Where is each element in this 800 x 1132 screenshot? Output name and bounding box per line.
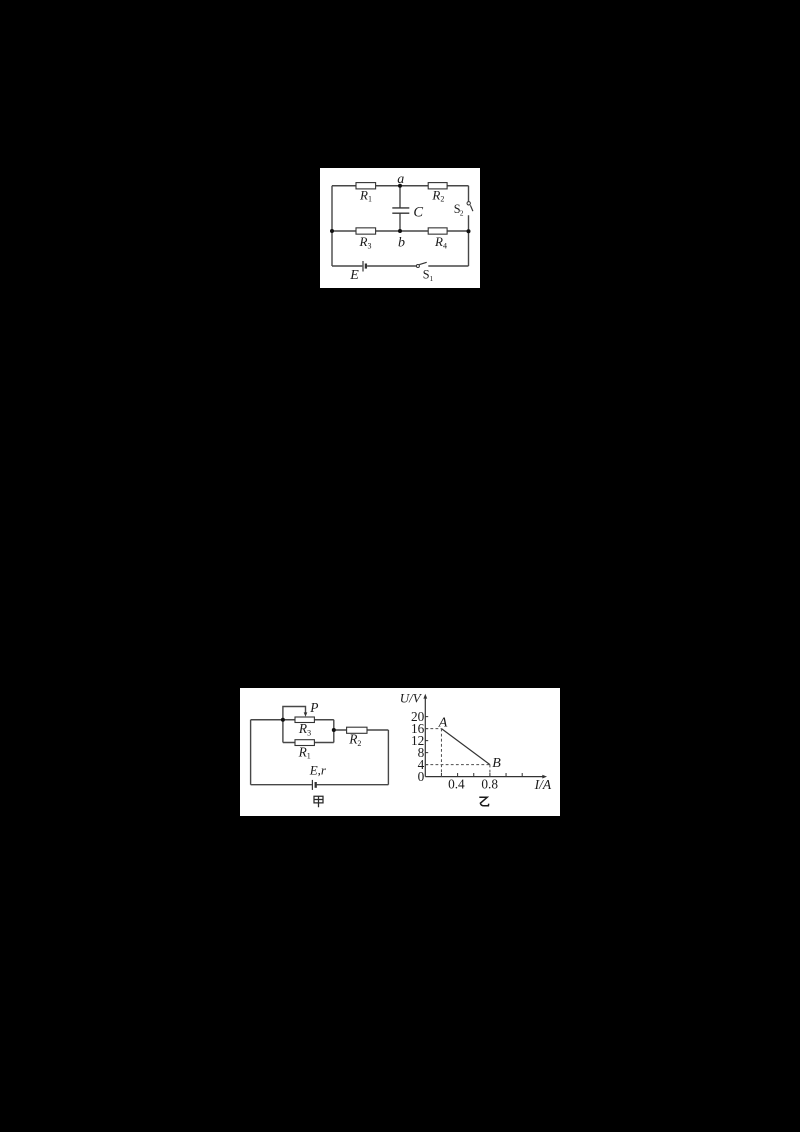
- y axis label 20: [411, 709, 425, 724]
- label S2: [454, 202, 464, 217]
- axis Y (U/V): [423, 694, 427, 777]
- label R2: [431, 187, 444, 203]
- panel: bridge circuit figure: [320, 168, 480, 288]
- svg-text:0: 0: [418, 769, 425, 784]
- label A: [438, 716, 448, 731]
- wire right rail: [468, 186, 470, 266]
- resistor R4: [428, 228, 447, 234]
- svg-text:R1: R1: [298, 744, 311, 760]
- label U/V: [400, 691, 423, 706]
- wire capacitor branch: [399, 186, 401, 231]
- panel: rheostat circuit (jia) and U-I graph (yi): [240, 688, 560, 816]
- wire bottom rail: [332, 265, 469, 267]
- wire top rail: [332, 185, 469, 187]
- x axis label 0.4: [448, 777, 465, 792]
- node right junction dot: [332, 728, 336, 732]
- label b: [398, 235, 405, 250]
- svg-text:R3: R3: [359, 234, 372, 250]
- label jia (CJK): [314, 796, 323, 807]
- label a: [397, 172, 404, 187]
- label R2: [348, 732, 361, 748]
- wire bottom rail: [251, 784, 389, 786]
- wire wiper P lead: [283, 707, 306, 720]
- label P: [309, 700, 318, 715]
- label R4: [434, 234, 447, 250]
- node a junction dot: [398, 184, 402, 188]
- label E,r: [309, 763, 327, 778]
- label R1: [298, 744, 311, 760]
- resistor R2: [347, 727, 367, 733]
- rheostat R3: [295, 717, 314, 723]
- switch S2: [467, 202, 473, 212]
- svg-text:R2: R2: [431, 187, 444, 203]
- svg-text:a: a: [397, 172, 404, 187]
- y axis label 16: [411, 721, 425, 736]
- y axis label 4: [418, 757, 425, 772]
- svg-text:E: E: [349, 268, 359, 283]
- svg-text:S2: S2: [454, 202, 464, 217]
- resistor R1: [356, 183, 376, 189]
- label R1: [359, 187, 372, 203]
- svg-text:P: P: [309, 700, 318, 715]
- node b junction dot: [398, 229, 402, 233]
- wire left rail: [250, 720, 252, 785]
- svg-text:b: b: [398, 235, 405, 250]
- battery E,r: [312, 780, 315, 790]
- svg-text:B: B: [492, 756, 501, 771]
- y axis label 12: [411, 733, 424, 748]
- svg-text:R4: R4: [434, 234, 447, 250]
- capacitor C: [392, 208, 409, 213]
- svg-text:R2: R2: [348, 732, 361, 748]
- svg-text:R1: R1: [359, 187, 372, 203]
- plotted line A to B: [441, 729, 489, 765]
- svg-text:U/V: U/V: [400, 691, 423, 706]
- label E: [349, 268, 359, 283]
- label yi (CJK): [479, 797, 488, 806]
- y tick marks: [425, 717, 428, 765]
- svg-text:A: A: [438, 716, 448, 731]
- wire lower branch R1: [283, 720, 334, 743]
- axis X (I/A): [425, 775, 547, 779]
- wire middle rail: [332, 230, 469, 232]
- label C: [413, 204, 423, 220]
- svg-text:E,r: E,r: [309, 763, 327, 778]
- label B: [492, 756, 501, 771]
- y axis label 8: [418, 745, 425, 760]
- resistor R3: [356, 228, 376, 234]
- switch S1: [416, 262, 426, 267]
- label R3: [359, 234, 372, 250]
- battery E: [363, 261, 366, 272]
- node left junction dot: [281, 718, 285, 722]
- dashed guide lines: [425, 729, 490, 777]
- label R3: [298, 721, 311, 737]
- node left junction dot: [330, 229, 334, 233]
- wire R2 branch: [334, 729, 389, 731]
- label S1: [423, 268, 434, 283]
- wiper arrowhead: [304, 712, 308, 716]
- label I/A: [534, 777, 552, 792]
- svg-text:0.8: 0.8: [481, 777, 498, 792]
- wire left rail: [331, 186, 333, 266]
- x tick marks: [441, 773, 522, 777]
- x axis label 0.8: [481, 777, 498, 792]
- node right junction dot: [467, 229, 471, 233]
- svg-text:C: C: [413, 204, 423, 220]
- resistor R1: [295, 740, 314, 746]
- wire top branch: [251, 719, 334, 721]
- y axis label 0: [418, 769, 425, 784]
- svg-text:I/A: I/A: [534, 777, 552, 792]
- resistor R2: [428, 183, 447, 189]
- svg-text:R3: R3: [298, 721, 311, 737]
- svg-text:S1: S1: [423, 268, 434, 283]
- wire right rail: [387, 730, 389, 785]
- svg-text:0.4: 0.4: [448, 777, 465, 792]
